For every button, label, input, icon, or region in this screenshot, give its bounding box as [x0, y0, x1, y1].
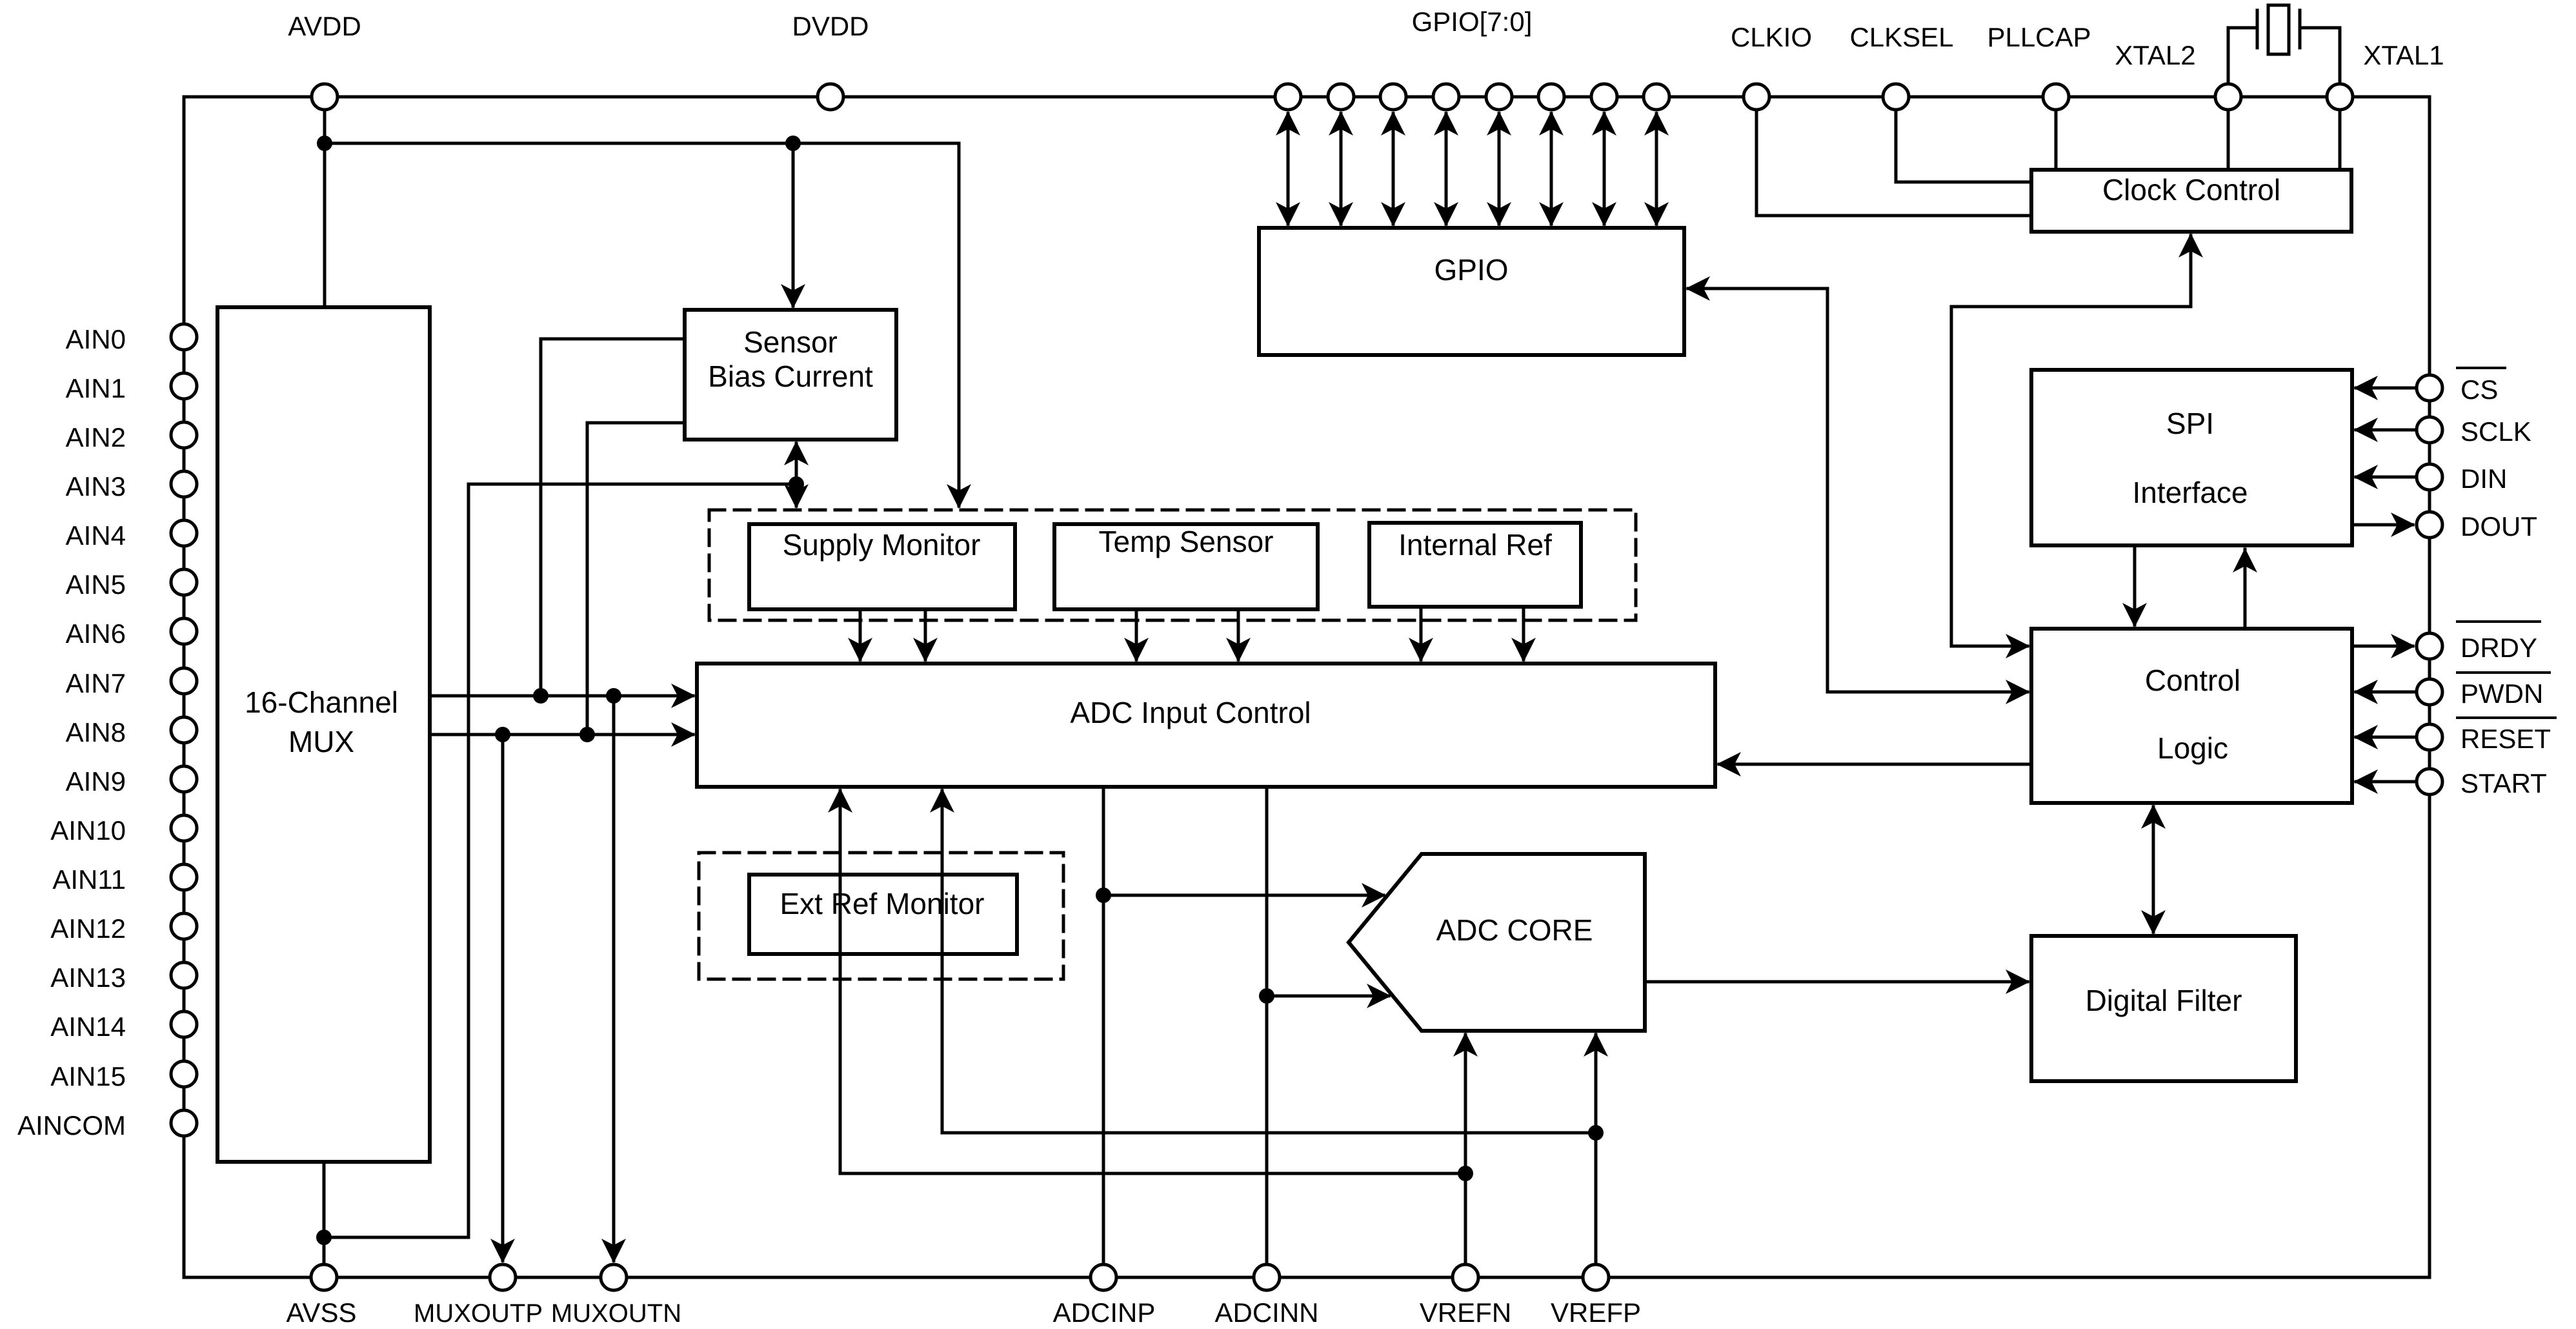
arrowhead Sensor Bias double arrow down — [784, 484, 809, 509]
block SPI Interface — [2031, 370, 2352, 545]
svg-text:AINCOM: AINCOM — [17, 1110, 126, 1141]
svg-text:Control: Control — [2145, 664, 2240, 697]
svg-text:ADCINN: ADCINN — [1214, 1297, 1318, 1328]
pin AIN15 — [171, 1061, 197, 1087]
arrowhead ADCINN into ADC CORE — [1367, 984, 1391, 1008]
wire ADC CORE to Digital Filter — [1645, 980, 2028, 984]
wire VREFP via Ext Ref Monitor to ADC Input Control — [942, 791, 1596, 1133]
arrowhead Ext Ref right riser up — [930, 788, 954, 813]
svg-text:AIN1: AIN1 — [66, 373, 126, 403]
arrowhead Internal Ref out left — [1409, 638, 1433, 662]
crystal body — [2268, 5, 2289, 54]
wire GPIO3 bidirectional shaft — [1445, 114, 1448, 224]
arrowhead GPIO1 up — [1329, 111, 1353, 136]
svg-text:Ext Ref Monitor: Ext Ref Monitor — [780, 887, 985, 920]
svg-text:XTAL2: XTAL2 — [2115, 40, 2195, 70]
wire Sensor Bias left stub upper — [541, 339, 685, 696]
wire GPIO2 bidirectional shaft — [1392, 114, 1395, 224]
arrowhead VREFN into ADC CORE — [1453, 1032, 1478, 1057]
arrowhead Supply Monitor out right — [913, 638, 938, 662]
pin VREFP — [1583, 1264, 1609, 1290]
arrowhead DIN into SPI — [2353, 465, 2378, 489]
wire ADCINP to ADC CORE — [1103, 894, 1384, 897]
arrowhead DOUT out — [2391, 512, 2415, 537]
svg-text:START: START — [2460, 768, 2547, 798]
wire GPIO1 bidirectional shaft — [1340, 114, 1343, 224]
wire Control Logic input from Clock Control path — [1951, 645, 2028, 648]
pin AIN11 — [171, 864, 197, 890]
svg-text:SCLK: SCLK — [2460, 416, 2531, 447]
svg-text:AIN8: AIN8 — [66, 717, 126, 747]
junction line A at MUXOUTN drop — [606, 688, 621, 704]
wire Temp Sensor to ADC Input Control (left) — [1135, 609, 1138, 660]
pins GPIO[7:0] — [1275, 84, 1301, 110]
svg-text:DOUT: DOUT — [2460, 511, 2537, 542]
arrowhead VREFP into ADC CORE — [1584, 1032, 1608, 1057]
arrowhead Clock Control path into Control Logic — [2006, 634, 2030, 658]
pin XTAL2 — [2215, 84, 2241, 110]
arrowhead line A into ADC Input Control — [671, 684, 696, 708]
block GPIO — [1259, 228, 1684, 355]
dashed group box (Supply Monitor / Temp Sensor / Internal Ref) — [709, 510, 1636, 620]
arrowhead GPIO0 up — [1276, 111, 1300, 136]
arrowhead AVDD into Sensor Bias — [781, 284, 805, 309]
chip boundary left border — [183, 97, 186, 1277]
block ADC Input Control — [697, 664, 1715, 787]
wire Control Logic to ADC Input Control — [1719, 763, 2031, 766]
block Control Logic — [2031, 629, 2352, 803]
arrowhead into Clock Control bottom — [2179, 233, 2203, 258]
arrowhead RESET into Control Logic — [2353, 725, 2378, 749]
arrowhead CS into SPI — [2353, 376, 2378, 400]
arrowhead MUXOUTP — [490, 1239, 515, 1263]
wire GPIO7 bidirectional shaft — [1655, 114, 1658, 224]
pin XTAL1 — [2327, 84, 2353, 110]
wire GPIO4 bidirectional shaft — [1498, 114, 1501, 224]
svg-text:CLKSEL: CLKSEL — [1849, 22, 1953, 52]
svg-text:AVSS: AVSS — [287, 1297, 357, 1328]
pin AIN10 — [171, 815, 197, 841]
pin DOUT — [2417, 512, 2442, 538]
wire Supply Monitor to ADC Input Control (right) — [924, 609, 927, 660]
arrowhead GPIO7 up — [1644, 111, 1669, 136]
arrowhead GPIO4 down — [1487, 202, 1511, 227]
svg-text:MUXOUTP: MUXOUTP — [414, 1299, 543, 1328]
wire Control Logic to SPI (up arrow) — [2244, 549, 2247, 629]
svg-text:VREFP: VREFP — [1551, 1297, 1641, 1328]
arrowhead Digital Filter up to Control Logic — [2141, 804, 2166, 829]
wire AVDD drop to Sensor Bias Current — [792, 143, 795, 306]
wire Sensor Bias to dashed box (double arrow shaft) — [795, 443, 798, 506]
wire AVDD drop to Supply Monitor dashed box — [958, 143, 961, 506]
wire GPIO5 bidirectional shaft — [1550, 114, 1553, 224]
overline DRDY — [2456, 620, 2541, 623]
wire XTAL1 drop to Clock Control — [2339, 110, 2342, 170]
pin ADCINP — [1091, 1264, 1116, 1290]
junction ADCINP line to ADC CORE — [1096, 888, 1111, 903]
svg-text:XTAL1: XTAL1 — [2363, 40, 2444, 70]
arrowhead GPIO2 down — [1381, 202, 1405, 227]
wire SPI to Control Logic (down arrow) — [2133, 545, 2137, 625]
svg-text:DVDD: DVDD — [792, 11, 869, 41]
junction AVDD rail at Sensor Bias drop — [785, 136, 801, 151]
svg-text:MUX: MUX — [288, 725, 354, 758]
svg-text:AIN9: AIN9 — [66, 766, 126, 796]
pin SCLK — [2417, 417, 2442, 443]
svg-text:CLKIO: CLKIO — [1731, 22, 1812, 52]
wire Control Logic to Clock Control (up arrow) — [1951, 236, 2191, 646]
wire Supply Monitor to ADC Input Control (left) — [859, 609, 862, 660]
wire RESET pin to Control Logic — [2356, 736, 2417, 739]
arrowhead Internal Ref out right — [1511, 638, 1536, 662]
pin AIN2 — [171, 422, 197, 448]
arrowhead GPIO6 up — [1592, 111, 1616, 136]
arrowhead Supply Monitor out left — [848, 638, 872, 662]
overline CS — [2456, 367, 2506, 369]
svg-text:AIN12: AIN12 — [50, 913, 126, 944]
arrowhead GPIO0 down — [1276, 202, 1300, 227]
wire CS pin to SPI — [2356, 387, 2417, 390]
junction AVSS at pin riser — [316, 1230, 332, 1245]
wire XTAL2 drop to Clock Control — [2227, 110, 2230, 170]
junction AVDD rail at MUX drop — [317, 136, 332, 151]
pin AIN3 — [171, 471, 197, 497]
svg-text:AIN11: AIN11 — [52, 864, 126, 895]
arrowhead ADCINP into ADC CORE — [1362, 883, 1386, 908]
svg-text:Clock Control: Clock Control — [2102, 173, 2280, 207]
svg-text:AIN3: AIN3 — [66, 471, 126, 502]
pin PWDN — [2417, 679, 2442, 705]
wire ADCINN vertical — [1265, 787, 1269, 1277]
arrowhead START into Control Logic — [2353, 769, 2378, 794]
arrowhead PWDN into Control Logic — [2353, 680, 2378, 704]
arrowhead DRDY out — [2391, 634, 2415, 658]
arrowhead Control Logic into ADC Input Control — [1716, 752, 1741, 776]
crystal plate left — [2256, 10, 2259, 48]
junction line A at Sensor Bias stub — [533, 688, 548, 704]
pin MUXOUTP — [490, 1264, 516, 1290]
arrowhead GPIO4 up — [1487, 111, 1511, 136]
svg-text:AIN7: AIN7 — [66, 668, 126, 698]
block 16-Channel MUX — [217, 307, 430, 1162]
wire XTAL2 riser to crystal — [2228, 28, 2255, 84]
pin CLKIO — [1744, 84, 1769, 110]
wire VREFP riser to ADC CORE — [1595, 1035, 1598, 1277]
wire SCLK pin to SPI — [2356, 429, 2417, 432]
svg-text:AIN10: AIN10 — [50, 815, 126, 846]
pin AINCOM — [171, 1110, 197, 1136]
wire GPIO to Control Logic — [1688, 289, 2028, 692]
svg-text:AIN6: AIN6 — [66, 618, 126, 649]
pin START — [2417, 769, 2442, 795]
junction VREFP riser — [1588, 1125, 1604, 1141]
wire ADCINN to ADC CORE — [1267, 995, 1389, 998]
pin AVDD — [312, 84, 337, 110]
block Clock Control — [2031, 170, 2351, 232]
wire Sensor Bias left stub lower — [587, 423, 685, 735]
wire PWDN pin to Control Logic — [2356, 691, 2417, 694]
svg-text:DIN: DIN — [2460, 463, 2507, 494]
arrowhead GPIO2 up — [1381, 111, 1405, 136]
svg-text:CS: CS — [2460, 374, 2498, 405]
svg-text:AIN0: AIN0 — [66, 324, 126, 354]
pin AIN7 — [171, 668, 197, 694]
svg-text:AVDD: AVDD — [288, 11, 361, 41]
wire AVSS vertical from MUX bottom to AVSS pin — [323, 1162, 326, 1277]
chip boundary top border — [184, 96, 2430, 99]
arrowhead GPIO1 down — [1329, 202, 1353, 227]
svg-text:Bias Current: Bias Current — [708, 360, 873, 393]
arrowhead GPIO6 down — [1592, 202, 1616, 227]
pin AIN0 — [171, 324, 197, 350]
pin AIN12 — [171, 913, 197, 939]
arrowhead GPIO3 up — [1434, 111, 1458, 136]
wire CLKSEL to Clock Control — [1896, 110, 2031, 182]
wire CLKIO to Clock Control — [1756, 110, 2031, 216]
svg-text:Internal Ref: Internal Ref — [1398, 528, 1552, 562]
svg-text:Logic: Logic — [2157, 731, 2228, 765]
arrowhead Control Logic down to Digital Filter — [2141, 910, 2166, 935]
pin ADCINN — [1254, 1264, 1280, 1290]
wire PLLCAP to Clock Control — [2055, 110, 2058, 170]
svg-text:PWDN: PWDN — [2460, 678, 2543, 709]
pin AIN6 — [171, 618, 197, 644]
block Digital Filter — [2031, 936, 2296, 1081]
pin RESET — [2417, 724, 2442, 750]
block Temp Sensor — [1054, 524, 1318, 609]
svg-text:ADCINP: ADCINP — [1053, 1297, 1156, 1328]
block Internal Ref — [1369, 523, 1581, 607]
arrowhead GPIO7 down — [1644, 202, 1669, 227]
svg-text:Interface: Interface — [2133, 476, 2248, 509]
arrowhead AVDD into dashed box — [947, 484, 971, 509]
arrowhead GPIO5 up — [1539, 111, 1564, 136]
wire MUX output line B — [430, 733, 693, 736]
arrowhead SPI down into Control Logic — [2122, 603, 2147, 627]
wire crystal to XTAL1 — [2302, 28, 2340, 84]
wire AVDD vertical into MUX top — [323, 97, 327, 307]
chip boundary bottom border — [184, 1276, 2430, 1279]
svg-text:AIN15: AIN15 — [50, 1061, 126, 1091]
overlines for active-low pins — [2456, 368, 2557, 718]
arrowhead GPIO3 down — [1434, 202, 1458, 227]
arrowhead Control Logic up into SPI — [2233, 548, 2257, 573]
pin DRDY — [2417, 633, 2442, 659]
junction ADCINN line to ADC CORE — [1259, 988, 1274, 1004]
wire AVSS riser — [467, 484, 470, 1237]
pin DIN — [2417, 464, 2442, 490]
arrowhead into GPIO right edge — [1685, 276, 1710, 301]
wire START pin to Control Logic — [2356, 780, 2417, 784]
arrowhead MUXOUTN — [601, 1239, 626, 1263]
svg-text:SPI: SPI — [2166, 407, 2214, 440]
arrowhead GPIO5 down — [1539, 202, 1564, 227]
wire Internal Ref to ADC Input Control (left) — [1420, 607, 1423, 660]
pin AIN1 — [171, 373, 197, 399]
junction line B at MUXOUTP drop — [495, 727, 510, 742]
wire GPIO6 bidirectional shaft — [1603, 114, 1606, 224]
dashed group box (Ext Ref Monitor) — [699, 853, 1063, 979]
arrowhead Sensor Bias double arrow up — [784, 441, 809, 465]
wire ADCINP vertical — [1102, 787, 1105, 1277]
block Ext Ref Monitor — [749, 875, 1017, 954]
pin AIN14 — [171, 1011, 197, 1037]
pin AIN5 — [171, 569, 197, 595]
pin AVSS — [311, 1264, 337, 1290]
wire Control Logic / Digital Filter double arrow shaft — [2152, 807, 2155, 932]
arrowhead GPIO path into Control Logic — [2006, 680, 2030, 704]
wire Control Logic to DRDY pin — [2352, 645, 2413, 648]
wire AVSS to sensor-bias junction — [468, 483, 796, 486]
svg-text:Sensor: Sensor — [743, 325, 838, 359]
wire MUXOUTN drop — [612, 696, 616, 1261]
svg-text:AIN14: AIN14 — [50, 1011, 126, 1042]
svg-text:AIN5: AIN5 — [66, 569, 126, 600]
arrowhead SCLK into SPI — [2353, 418, 2378, 442]
pin CS — [2417, 375, 2442, 401]
overline RESET — [2456, 716, 2557, 719]
pin DVDD — [818, 84, 843, 110]
arrowhead Ext Ref left riser up — [828, 788, 852, 813]
pin CLKSEL — [1883, 84, 1909, 110]
svg-text:Supply Monitor: Supply Monitor — [783, 528, 981, 562]
junction AVSS at Sensor Bias double arrow — [789, 476, 804, 492]
svg-text:GPIO[7:0]: GPIO[7:0] — [1412, 6, 1533, 37]
wire AVDD rail — [325, 142, 959, 145]
pin AIN4 — [171, 520, 197, 546]
wire VREFN via Ext Ref Monitor to ADC Input Control — [840, 791, 1465, 1173]
wire MUX output line A — [430, 695, 693, 698]
wire Internal Ref to ADC Input Control (right) — [1522, 607, 1525, 660]
block Supply Monitor — [749, 524, 1015, 609]
pin MUXOUTN — [601, 1264, 627, 1290]
wire AVSS horizontal stub — [324, 1236, 468, 1239]
pin AIN8 — [171, 717, 197, 743]
junction VREFN riser — [1458, 1166, 1473, 1181]
svg-text:MUXOUTN: MUXOUTN — [551, 1299, 681, 1328]
svg-text:AIN13: AIN13 — [50, 962, 126, 993]
svg-text:ADC Input Control: ADC Input Control — [1070, 696, 1311, 729]
arrowhead Temp Sensor out left — [1124, 638, 1149, 662]
block Sensor Bias Current — [685, 310, 896, 440]
svg-text:Temp Sensor: Temp Sensor — [1098, 525, 1273, 558]
svg-text:DRDY: DRDY — [2460, 633, 2537, 663]
svg-text:RESET: RESET — [2460, 724, 2551, 754]
svg-text:AIN2: AIN2 — [66, 422, 126, 452]
wire DIN pin to SPI — [2356, 476, 2417, 479]
crystal plate right — [2299, 10, 2302, 48]
svg-text:Digital Filter: Digital Filter — [2086, 984, 2242, 1017]
block ADC CORE (pentagon) — [1349, 854, 1645, 1031]
wire GPIO0 bidirectional shaft — [1287, 114, 1290, 224]
arrowhead line B into ADC Input Control — [671, 722, 696, 747]
pin VREFN — [1453, 1264, 1478, 1290]
chip boundary right border — [2428, 97, 2431, 1277]
svg-text:ADC CORE: ADC CORE — [1436, 913, 1593, 947]
overline PWDN — [2456, 671, 2551, 674]
svg-text:VREFN: VREFN — [1420, 1297, 1511, 1328]
svg-text:PLLCAP: PLLCAP — [1987, 22, 2091, 52]
junction line B at Sensor Bias stub — [579, 727, 595, 742]
wire MUXOUTP drop — [501, 735, 505, 1261]
svg-text:GPIO: GPIO — [1434, 253, 1508, 287]
pin AIN9 — [171, 766, 197, 792]
arrowhead ADC CORE into Digital Filter — [2006, 969, 2030, 994]
svg-text:AIN4: AIN4 — [66, 520, 126, 551]
pin AIN13 — [171, 962, 197, 988]
wire VREFN riser to ADC CORE — [1464, 1035, 1467, 1277]
wire Temp Sensor to ADC Input Control (right) — [1237, 609, 1240, 660]
arrowhead Temp Sensor out right — [1226, 638, 1251, 662]
wire SPI to DOUT pin — [2352, 523, 2413, 527]
pin PLLCAP — [2043, 84, 2069, 110]
svg-text:16-Channel: 16-Channel — [245, 685, 398, 719]
